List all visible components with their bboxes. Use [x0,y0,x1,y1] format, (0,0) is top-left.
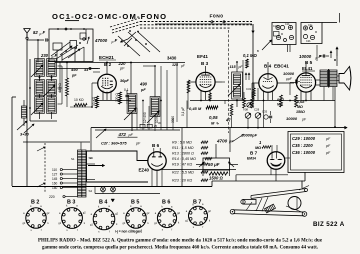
arrow down to volume control [252,24,254,108]
svg-text:B: B [257,49,259,53]
tube B6 EZ40 [148,152,166,170]
mains switch dashed link [37,143,45,192]
label 47K [226,104,233,128]
label B7 EM34 [247,151,258,161]
wires tube B5 [290,62,320,100]
mains taps [60,168,77,188]
svg-text:F: F [55,53,58,58]
label B6 [152,143,160,148]
svg-text:M: M [315,31,317,34]
socket diagram B4 [90,199,119,234]
svg-text:50 μF: 50 μF [208,162,220,167]
wire left edge [12,97,16,186]
svg-text:125: 125 [172,63,179,67]
diode load resistors [243,92,273,128]
IF transformer 1 coils [124,94,160,131]
dial cord drive: pulley [288,197,301,210]
socket diagram B3 [58,200,86,233]
svg-text:127: 127 [52,173,58,177]
svg-text:0,12: 0,12 [277,98,284,102]
capacitor 47000pF [94,30,139,46]
resistor 10K ohm [74,98,87,107]
svg-text:472: 472 [118,132,127,137]
label EF41 B3 [197,54,209,66]
wire arrow right rail [91,121,347,151]
svg-text:12÷490: 12÷490 [143,112,147,123]
wires tube B3 [188,66,222,100]
svg-text:EZ40: EZ40 [139,168,150,173]
dial cord lines [246,186,309,213]
svg-text:BIZ 522 A: BIZ 522 A [313,221,345,228]
pilot lamps [95,187,160,194]
svg-text:C28: C28 [254,108,260,112]
svg-text:S4: S4 [89,189,93,193]
svg-text:M: M [281,33,283,36]
vertical wire comb [137,63,177,131]
svg-text:MΩ: MΩ [297,105,303,109]
arrow to trimmer box [257,40,272,53]
svg-text:14: 14 [90,156,94,160]
labels 15K ohm [58,82,62,92]
wire antenna to chassis rail [26,40,28,186]
capacitor 490pF grid [70,67,98,78]
label 10K [155,113,159,123]
trimmer arrows on coils [29,59,62,121]
tube B5 EL41 [296,73,315,92]
transformer top wires [81,143,95,180]
speaker LS [337,67,351,91]
svg-text:PHILIPS RADIO - Mod. BIZ 522 A: PHILIPS RADIO - Mod. BIZ 522 A. Quattro … [38,239,323,244]
svg-text:p: p [39,32,42,36]
capacitor 10000pF slanted [232,133,258,143]
svg-text:MΩ: MΩ [277,103,283,107]
FONO input [155,14,252,24]
svg-text:C29 : 10000: C29 : 10000 [292,136,316,141]
coil L6 [47,97,57,114]
svg-text:C36 : 10000: C36 : 10000 [292,150,316,155]
svg-text:B 4: B 4 [99,200,107,206]
label EZ40 [139,168,150,173]
wires tube B6 [152,148,162,186]
socket diagram B2 [23,200,51,233]
resistor value legend [172,141,212,183]
wires tube B4 [252,62,273,100]
model label BIZ 522 A [313,221,345,228]
wires tube B2 [92,62,111,100]
svg-text:F0N0: F0N0 [210,14,224,20]
capacitor 4700pF filter [216,139,234,144]
svg-text:EBC41: EBC41 [274,64,289,69]
svg-text:R14 : 0,45 MΩ: R14 : 0,45 MΩ [172,157,196,161]
svg-text:C35: C35 [262,110,268,114]
IF trimmer box 1 (top view) [272,23,296,45]
svg-text:160: 160 [52,182,58,186]
tuning cap arrows [24,124,106,138]
capacitor 10000pF bottom [286,116,307,122]
svg-text:110: 110 [52,168,57,172]
resistor 0,12M [277,95,284,107]
svg-text:B 6: B 6 [152,143,160,148]
label 472pF [118,132,138,137]
svg-text:10000pF: 10000pF [241,133,258,138]
svg-text:10000: 10000 [286,116,298,121]
power autotransformer winding [78,150,87,197]
capacitor 36pF [120,79,130,83]
wires IF1 [130,62,156,131]
svg-text:F: F [319,54,322,59]
socket diagram B7 [185,200,211,230]
wire top rail [93,46,117,48]
capacitor C1 82pF [27,30,49,63]
chassis rail bottom [12,170,305,189]
tap labels [49,168,78,199]
svg-text:EF41: EF41 [197,54,208,59]
svg-text:B 3: B 3 [67,200,75,206]
svg-text:pF: pF [71,74,77,78]
rail y68 [49,69,100,73]
svg-text:0,1 MΩ: 0,1 MΩ [243,53,257,58]
svg-text:490: 490 [139,82,148,87]
resistor below B4 [243,60,258,107]
tube B7 EM34 magic eye [267,152,285,170]
svg-text:0,45 M: 0,45 M [189,106,202,111]
resistor vertical left of B2 [66,63,69,108]
label 3300 [171,116,175,123]
resistor 1M [255,140,271,150]
svg-text:0,1: 0,1 [124,88,129,92]
svg-text:pF: pF [325,144,331,148]
svg-text:pF: pF [325,137,331,141]
dial cord spring [265,204,276,213]
label 3430 [167,56,186,69]
band switch dashed bus [112,22,252,34]
caption line 1 [38,239,323,244]
label 0,1M top [243,53,257,68]
svg-text:pF: pF [140,88,146,92]
svg-text:MΩ: MΩ [255,146,261,150]
svg-text:gamme onde corte, compresa que: gamme onde corte, compresa quella per pe… [42,246,318,251]
switch wafer diagonals [118,32,160,56]
svg-text:OC1-OC2-OMC-OM-FONO: OC1-OC2-OMC-OM-FONO [52,12,166,21]
svg-text:C2a: C2a [308,24,313,27]
svg-text:μpF: μpF [285,77,293,81]
svg-text:C1a: C1a [273,25,278,28]
dial cord drive: tuning shaft [241,200,256,205]
svg-text:10 KΩ: 10 KΩ [74,98,84,102]
svg-text:0,1 μF: 0,1 μF [181,107,185,116]
svg-text:3430: 3430 [167,56,177,61]
note i-j non collegare [115,230,142,234]
svg-text:47000: 47000 [94,38,108,43]
svg-text:R13 : 2800 Ω: R13 : 2800 Ω [172,152,194,156]
wire legend left edge [182,128,230,186]
svg-text:pF: pF [325,151,331,155]
svg-text:B 6: B 6 [162,200,170,206]
svg-text:1500 Ω: 1500 Ω [209,176,223,181]
svg-text:pF: pF [119,67,125,71]
dial scale box [87,151,149,182]
socket diagram B5 [123,200,151,233]
IF transformer 2 [228,61,250,107]
svg-text:F: F [115,38,118,43]
svg-text:B 7: B 7 [193,200,201,206]
output transformer T2 [320,69,337,101]
coil L7 antenna coil [22,100,27,126]
capacitor legend box [288,132,344,173]
svg-text:490: 490 [70,67,78,72]
svg-text:pF: pF [135,141,141,145]
rail y62 [55,62,185,64]
svg-text:230: 230 [40,53,49,58]
svg-text:115: 115 [230,65,237,69]
coil L5 [47,80,57,96]
svg-text:F: F [43,30,46,35]
electrolytic 50uF block [196,144,238,176]
svg-text:i-j = non collegare: i-j = non collegare [115,230,142,234]
svg-text:B 3: B 3 [201,61,209,66]
AVC rail [95,100,335,102]
label B5 EL41 [302,60,315,71]
capacitor legend text [292,136,331,155]
dial cord drive: top bar [251,189,308,199]
svg-text:220: 220 [118,61,127,66]
svg-text:EM34: EM34 [247,157,256,161]
svg-text:4700: 4700 [216,139,228,144]
label 12-490 [143,112,147,123]
svg-text:ECH21: ECH21 [99,55,114,60]
wire top rail right [288,13,340,52]
svg-text:B 5: B 5 [131,200,139,206]
tube B3 EF41 [196,72,215,91]
svg-text:pF: pF [128,133,134,137]
label B4 EBC41 [264,64,289,69]
wire right vertical [334,87,336,128]
caption line 2 [42,246,318,251]
capacitor 230pF [40,53,58,59]
svg-text:C32: C32 [246,87,252,91]
coil L4 [47,59,57,77]
label ECH21 B2 [99,55,116,67]
svg-text:V08: V08 [243,108,248,112]
svg-text:33: 33 [84,68,88,72]
svg-text:145: 145 [52,177,58,181]
svg-text:R11 : 1,5 MΩ: R11 : 1,5 MΩ [172,146,194,150]
svg-text:M ∿: M ∿ [211,121,219,126]
IF trimmer box 2 (top view) [301,23,322,44]
svg-text:10000: 10000 [299,54,312,59]
antenna [24,29,31,40]
misc vertical wires [54,62,290,109]
resistor 33K ohm cathode [92,96,99,108]
svg-text:B 2: B 2 [31,200,39,206]
dial cord drive: bottom bar [230,209,307,216]
coil L2 [35,80,45,96]
trimmer 3-30 [17,121,30,137]
svg-text:p: p [111,40,114,44]
extra junction wires [106,18,307,129]
title: band labels OC1-OC2-OMC-OM-FONO [52,12,166,21]
resistor 1500 ohm [209,172,228,181]
svg-text:C1b: C1b [285,23,290,26]
svg-text:C2b: C2b [306,40,311,43]
capacitor 0,1uF [124,88,129,104]
resistor 0,68M [295,95,306,114]
svg-text:S1: S1 [71,157,75,161]
svg-text:C35 : 2200: C35 : 2200 [292,143,313,148]
tube B4 EBC41 [259,74,277,92]
RF input switch box [49,28,93,62]
svg-text:220: 220 [49,195,55,199]
label C2f 360+575 pF [101,140,141,145]
svg-text:R22 : 5,5 MΩ: R22 : 5,5 MΩ [172,171,194,175]
wires tube B7 [271,145,290,181]
label 0,05M [209,115,219,126]
svg-text:C2f : 360÷575: C2f : 360÷575 [101,140,127,145]
coil L3 [35,97,45,114]
label 0,1uF vertical [181,101,187,129]
tuning gang line [23,130,180,142]
tube B2 ECH21 [98,74,117,93]
svg-text:B 7: B 7 [250,151,258,156]
capacitor 490pF [139,82,148,93]
capacitor 220pF [118,61,127,71]
svg-text:82: 82 [33,30,38,35]
resistor 120 ohm [115,92,122,104]
svg-text:33 KΩ: 33 KΩ [92,96,96,106]
capacitor 10000pF top [299,45,332,61]
svg-text:EL41: EL41 [302,66,313,71]
svg-text:36pF: 36pF [120,79,130,83]
winding labels S1 S2 S4 [71,156,92,193]
coupling cap 10000pF [277,71,300,84]
coil L1 [35,59,45,77]
svg-text:10000: 10000 [283,71,295,76]
svg-text:0,05: 0,05 [209,115,218,120]
resistor 0,45M [187,80,218,111]
socket diagram B6 [154,200,180,232]
arrow up B+ [334,47,338,66]
band switch shaft dashed [228,30,230,133]
svg-text:150Ω: 150Ω [296,110,305,114]
